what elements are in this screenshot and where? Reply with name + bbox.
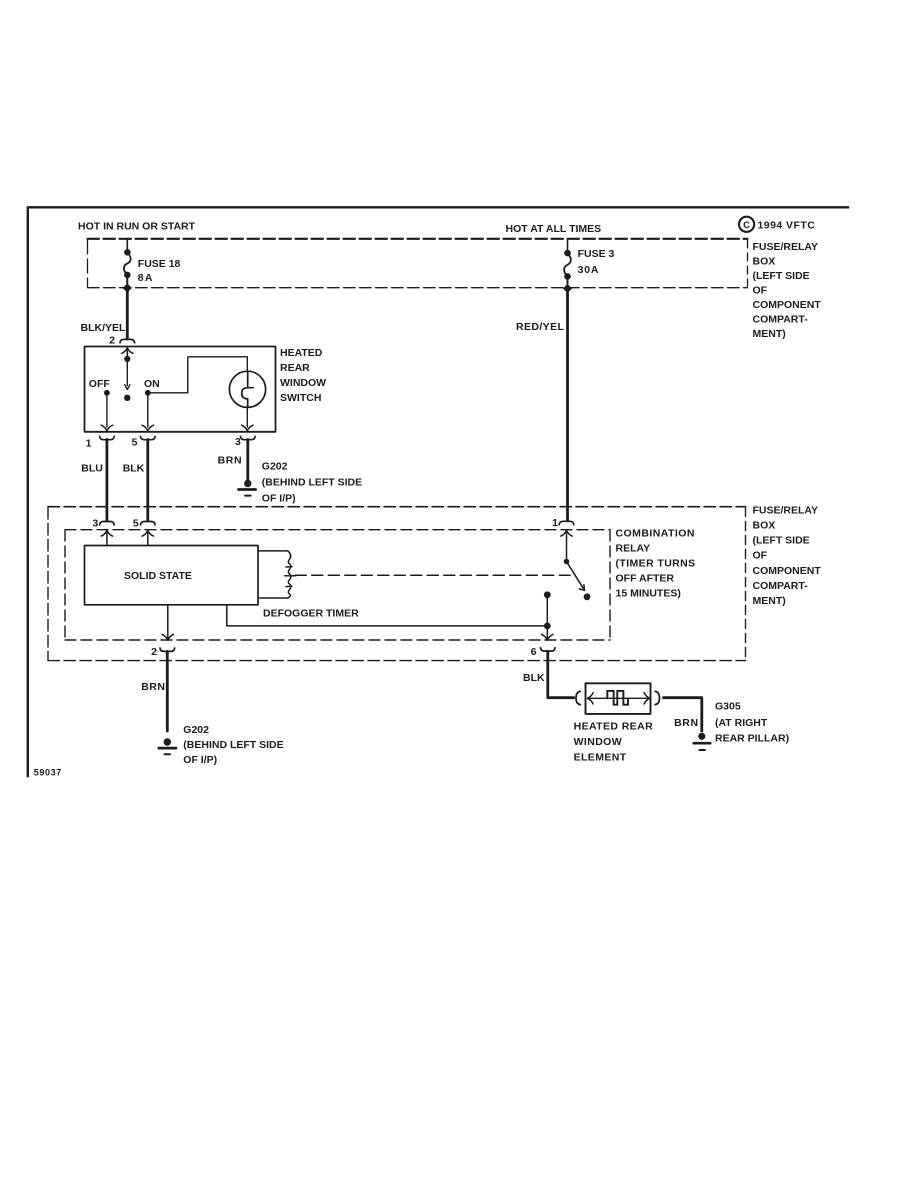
svg-text:1994 VFTC: 1994 VFTC xyxy=(758,220,816,232)
element label xyxy=(574,721,653,764)
ON contact xyxy=(142,390,153,431)
svg-text:COMPONENT: COMPONENT xyxy=(753,299,822,311)
svg-text:BLK: BLK xyxy=(523,672,545,684)
svg-text:RELAY: RELAY xyxy=(616,543,651,555)
svg-text:1: 1 xyxy=(552,517,558,529)
svg-text:BOX: BOX xyxy=(753,520,776,532)
svg-text:WINDOW: WINDOW xyxy=(574,736,622,748)
junction at bus xyxy=(563,284,572,293)
wire fuse 3 feed xyxy=(567,239,569,251)
pin 6 exit (relay box) xyxy=(542,626,553,640)
fuse/relay box (middle) dashed border xyxy=(48,507,746,661)
svg-text:(AT RIGHT: (AT RIGHT xyxy=(715,717,768,729)
fuse/relay box (top) dashed border xyxy=(88,239,748,288)
svg-text:FUSE 18: FUSE 18 xyxy=(138,258,181,270)
svg-text:(BEHIND LEFT SIDE: (BEHIND LEFT SIDE xyxy=(262,477,362,489)
junction (timer output) xyxy=(544,623,551,630)
svg-text:OF I/P): OF I/P) xyxy=(262,492,296,504)
svg-text:HOT AT ALL TIMES: HOT AT ALL TIMES xyxy=(506,223,602,235)
svg-text:OF I/P): OF I/P) xyxy=(183,754,217,766)
combination relay inner dashed box xyxy=(65,530,610,640)
svg-text:SWITCH: SWITCH xyxy=(280,392,321,404)
svg-text:BLU: BLU xyxy=(81,462,103,474)
heated rear window element xyxy=(576,683,660,714)
svg-text:RED/YEL: RED/YEL xyxy=(516,321,564,333)
ground G202 (timer) xyxy=(159,738,176,754)
wire BRN (pin 2 to ground) xyxy=(166,651,169,731)
svg-text:2: 2 xyxy=(151,646,157,658)
ground G202 (switch) xyxy=(239,480,256,496)
combination relay label text xyxy=(616,528,696,600)
svg-text:FUSE 3: FUSE 3 xyxy=(578,248,615,260)
svg-text:ON: ON xyxy=(144,378,160,390)
svg-text:OFF: OFF xyxy=(89,378,111,390)
indicator lamp xyxy=(229,371,265,407)
heated rear window switch box xyxy=(85,347,276,432)
svg-text:OF: OF xyxy=(753,550,768,562)
svg-text:ELEMENT: ELEMENT xyxy=(574,752,627,764)
relay coil xyxy=(258,551,296,598)
fuse F18 (8A) xyxy=(124,249,131,288)
value label FUSE 18 / 8A xyxy=(138,258,181,284)
svg-text:BRN: BRN xyxy=(218,455,243,467)
ground G305 xyxy=(694,733,710,750)
ground G202 (timer) label xyxy=(183,724,283,766)
svg-text:8A: 8A xyxy=(138,272,154,284)
connector pin 2 (male arrow up) xyxy=(122,348,133,357)
wire lamp to pin 3 xyxy=(246,407,248,427)
connector pin 2 (female half) xyxy=(120,339,135,342)
svg-text:REAR PILLAR): REAR PILLAR) xyxy=(715,732,789,744)
wire BLK xyxy=(146,440,149,522)
frame border (top + left) xyxy=(28,207,848,776)
svg-text:FUSE/RELAY: FUSE/RELAY xyxy=(753,504,819,516)
wire BRN xyxy=(246,440,249,481)
svg-text:HEATED REAR: HEATED REAR xyxy=(574,721,653,733)
svg-text:(LEFT SIDE: (LEFT SIDE xyxy=(753,535,810,547)
svg-text:5: 5 xyxy=(133,517,139,529)
svg-text:HOT IN RUN OR START: HOT IN RUN OR START xyxy=(78,221,196,233)
svg-text:WINDOW: WINDOW xyxy=(280,377,326,389)
mechanical link (dashed) xyxy=(295,574,570,576)
svg-text:5: 5 xyxy=(132,437,138,449)
wire ON to lamp xyxy=(148,357,248,393)
svg-text:(BEHIND LEFT SIDE: (BEHIND LEFT SIDE xyxy=(183,739,283,751)
junction at bus xyxy=(123,284,132,293)
svg-text:C: C xyxy=(743,220,750,231)
svg-text:HEATED: HEATED xyxy=(280,347,323,359)
fuse/relay box (top) label text xyxy=(753,241,822,340)
fuse/relay box (middle) label text xyxy=(753,504,822,607)
pin 2 exit (relay box) xyxy=(162,605,173,640)
wire fuse 18 feed xyxy=(126,239,128,250)
svg-text:OFF AFTER: OFF AFTER xyxy=(616,573,675,585)
wire RED/YEL xyxy=(566,289,569,521)
svg-text:BOX: BOX xyxy=(753,256,776,268)
fuse F3 (30A) xyxy=(564,250,571,289)
svg-text:FUSE/RELAY: FUSE/RELAY xyxy=(753,241,819,253)
svg-text:15 MINUTES): 15 MINUTES) xyxy=(616,588,681,600)
copyright symbol 1994 VFTC xyxy=(739,217,815,232)
defogger timer bracket xyxy=(227,605,548,626)
svg-text:BLK/YEL: BLK/YEL xyxy=(81,322,127,334)
svg-text:BRN: BRN xyxy=(141,681,165,693)
svg-text:COMPART-: COMPART- xyxy=(753,313,809,325)
svg-text:SOLID STATE: SOLID STATE xyxy=(124,570,192,582)
svg-text:BLK: BLK xyxy=(123,462,145,474)
svg-text:COMPONENT: COMPONENT xyxy=(753,565,822,577)
svg-text:3: 3 xyxy=(92,517,98,529)
switch wiper (pole from pin 2) xyxy=(124,356,130,401)
svg-text:COMPART-: COMPART- xyxy=(753,580,809,592)
svg-text:COMBINATION: COMBINATION xyxy=(616,528,695,540)
svg-text:(TIMER TURNS: (TIMER TURNS xyxy=(616,558,696,570)
wire BLK (pin 6 to element) xyxy=(548,651,574,698)
svg-text:G202: G202 xyxy=(262,460,288,472)
svg-text:1: 1 xyxy=(86,437,92,449)
ground G202 label xyxy=(262,460,362,504)
svg-text:OF: OF xyxy=(753,284,768,296)
svg-text:MENT): MENT) xyxy=(753,328,786,340)
svg-text:REAR: REAR xyxy=(280,362,310,374)
switch label text xyxy=(280,347,326,404)
svg-text:6: 6 xyxy=(531,646,537,658)
svg-text:G305: G305 xyxy=(715,701,741,713)
svg-text:BRN: BRN xyxy=(674,717,699,729)
OFF contact xyxy=(101,390,112,431)
svg-text:G202: G202 xyxy=(183,724,209,736)
wire BLU xyxy=(106,440,109,522)
wire BRN (element to ground) xyxy=(664,698,702,731)
svg-text:DEFOGGER TIMER: DEFOGGER TIMER xyxy=(263,608,359,620)
svg-text:MENT): MENT) xyxy=(753,595,786,607)
relay contact xyxy=(544,559,591,626)
value label FUSE 3 / 30A xyxy=(578,248,615,276)
svg-text:59037: 59037 xyxy=(34,767,62,777)
ground G305 label xyxy=(715,701,789,745)
solid state box xyxy=(85,546,259,605)
wire BLK/YEL xyxy=(126,288,129,339)
svg-text:2: 2 xyxy=(109,335,115,347)
svg-text:(LEFT SIDE: (LEFT SIDE xyxy=(753,270,810,282)
svg-text:30A: 30A xyxy=(578,264,600,276)
